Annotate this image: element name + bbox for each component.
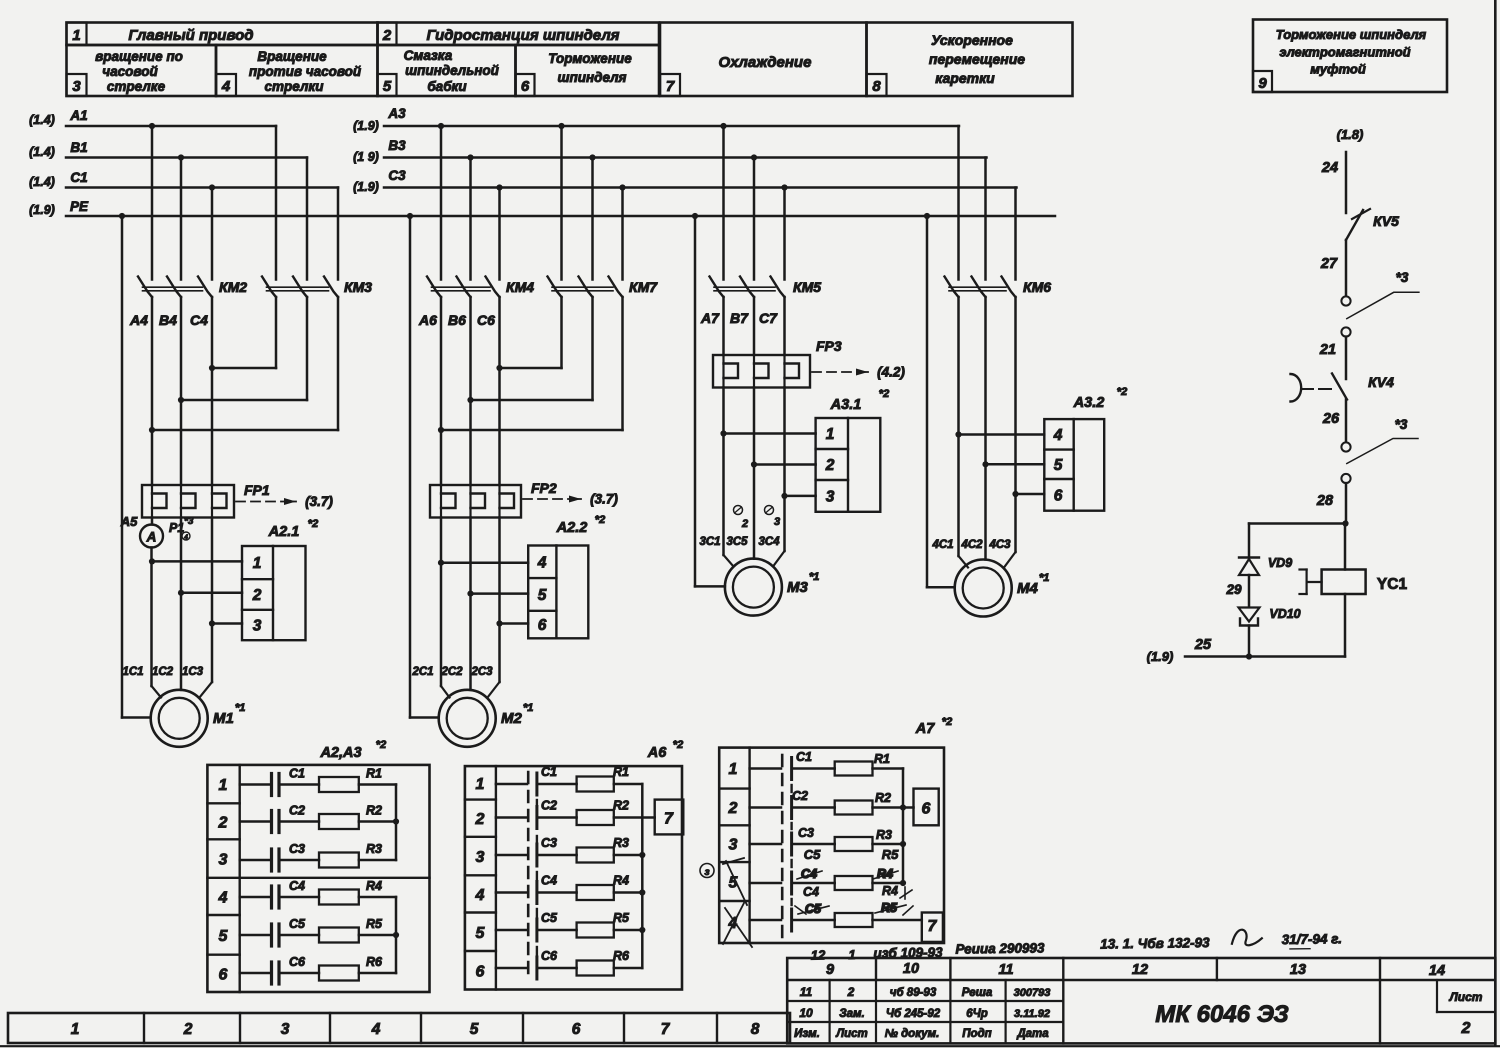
svg-text:C7: C7 — [759, 310, 778, 326]
connector mark *3 lower — [1347, 417, 1418, 464]
svg-text:(1.4): (1.4) — [29, 175, 55, 189]
wire C3 to KM6 — [1014, 188, 1017, 280]
resistor R3 of A6 — [538, 836, 642, 863]
header box 8 Ускоренное перемещение каретки — [867, 23, 1073, 97]
svg-text:С6: С6 — [289, 955, 306, 969]
svg-text:муфтой: муфтой — [1310, 62, 1366, 77]
svg-text:КМ5: КМ5 — [793, 279, 821, 295]
svg-text:(1.8): (1.8) — [1337, 127, 1364, 142]
wire A7 to A3.1 pin1 — [724, 432, 816, 435]
svg-text:3: 3 — [729, 837, 738, 854]
node junction C6 — [496, 365, 502, 371]
wire B3 to KM7 — [591, 158, 594, 280]
node B3 power rail — [353, 138, 986, 164]
capacitor row 3 of A7 — [750, 843, 781, 846]
svg-text:5: 5 — [383, 78, 392, 95]
wire B3 to KM6 — [984, 158, 987, 280]
svg-text:R1: R1 — [366, 767, 382, 781]
svg-text:8: 8 — [751, 1021, 760, 1038]
svg-text:Зам.: Зам. — [839, 1008, 865, 1020]
wire A1 to KM2 — [151, 126, 154, 280]
svg-text:R1: R1 — [613, 765, 629, 779]
svg-text:*2: *2 — [673, 739, 683, 751]
connector pin box 7 of A6 — [642, 800, 683, 835]
svg-text:2: 2 — [1461, 1020, 1471, 1037]
capacitor C3 of A6 — [496, 836, 557, 855]
title block frame — [787, 958, 1495, 1043]
svg-text:6: 6 — [219, 966, 228, 983]
diode VD9 — [1239, 556, 1292, 575]
svg-text:3С4: 3С4 — [758, 536, 780, 548]
resistor row 2 of A7 — [793, 801, 903, 815]
node A1 power rail — [29, 108, 276, 129]
svg-text:С1: С1 — [796, 750, 812, 764]
svg-text:4: 4 — [1053, 427, 1063, 444]
wire C1 to KM2 — [211, 188, 214, 280]
thermal overload relay FP1 — [142, 482, 333, 518]
svg-text:5: 5 — [538, 587, 547, 604]
capacitor C1 of A6 — [496, 765, 557, 784]
wire PE to M2 frame — [409, 216, 412, 718]
svg-text:1: 1 — [848, 947, 855, 962]
svg-text:(1.9): (1.9) — [29, 203, 55, 217]
capacitor C3 of A2,A3 — [240, 842, 305, 871]
svg-text:3: 3 — [72, 78, 81, 95]
wire 27 — [1345, 240, 1348, 297]
svg-text:A4: A4 — [129, 312, 148, 328]
motor M4 — [955, 560, 1050, 617]
header box 5 Смазка шпиндельной бабки — [378, 45, 516, 96]
wire B4 to A2.1 pin2 — [181, 592, 242, 595]
wire phase B7 vertical — [753, 297, 756, 355]
node C1 power rail — [29, 170, 338, 191]
svg-text:6: 6 — [922, 801, 931, 818]
svg-text:С5: С5 — [541, 911, 558, 925]
svg-text:*2: *2 — [1117, 386, 1127, 398]
svg-text:каретки: каретки — [935, 70, 995, 86]
wire to diode branch — [1249, 522, 1346, 525]
svg-text:26: 26 — [1322, 411, 1340, 427]
wire A2,A3 common bus 4-6 — [395, 897, 398, 973]
wire phase A6 vertical — [440, 297, 443, 485]
svg-text:4: 4 — [221, 78, 231, 95]
sheet cell Лист — [1437, 980, 1495, 1037]
svg-text:13: 13 — [1290, 962, 1306, 978]
wire PE to M4 frame — [926, 216, 929, 587]
wire A3 to KM4 — [440, 126, 443, 280]
svg-text:Вращение: Вращение — [257, 49, 327, 64]
contactor KM6 main contacts — [945, 277, 1052, 298]
connector pin box 7 of A7 — [922, 913, 943, 942]
wire KM7 output 1 to C6 — [560, 297, 563, 368]
wire 29 — [1248, 575, 1251, 607]
svg-text:1: 1 — [219, 777, 228, 794]
svg-text:A: A — [146, 530, 157, 545]
wire A6 to A2.2 pin4 — [441, 561, 528, 564]
svg-text:A6: A6 — [647, 745, 667, 761]
wire phase C4 vertical — [211, 297, 214, 485]
svg-text:R3: R3 — [366, 842, 382, 856]
svg-text:КМ7: КМ7 — [629, 279, 658, 295]
node junction A4 — [149, 427, 155, 433]
svg-text:A2.1: A2.1 — [268, 524, 300, 540]
wire 4C3 — [1014, 494, 1017, 552]
svg-text:*3: *3 — [1396, 270, 1409, 285]
svg-text:A2,A3: A2,A3 — [319, 745, 361, 761]
wire 24 — [1345, 152, 1348, 213]
node junction B4 — [178, 397, 184, 403]
node B1 power rail — [29, 140, 307, 161]
motor M1 — [151, 690, 246, 747]
svg-text:(3.7): (3.7) — [305, 494, 333, 509]
svg-text:3: 3 — [219, 852, 228, 869]
svg-text:R4: R4 — [613, 874, 629, 888]
header box 9 Торможение шпинделя электромагнитной муфтой — [1253, 20, 1447, 93]
wire KM3 output 3 to A4 — [337, 297, 340, 430]
wire A2,A3 common bus 1-3 — [395, 785, 398, 861]
svg-text:1С3: 1С3 — [182, 666, 204, 678]
svg-text:R2: R2 — [366, 804, 382, 818]
wire 2C3 — [498, 518, 501, 683]
svg-text:2: 2 — [218, 814, 228, 831]
svg-text:4: 4 — [475, 887, 485, 904]
resistor row 1 of A7 — [793, 762, 903, 776]
svg-text:Главный привод: Главный привод — [128, 27, 253, 44]
svg-text:FP3: FP3 — [816, 338, 842, 354]
svg-text:2С3: 2С3 — [470, 666, 493, 678]
svg-text:Реша: Реша — [962, 987, 993, 999]
svg-text:A7: A7 — [915, 721, 935, 737]
contactor KM3 main contacts — [262, 277, 372, 298]
capacitor C6 of A6 — [496, 949, 558, 968]
svg-text:5: 5 — [219, 928, 229, 945]
svg-text:A7: A7 — [700, 310, 720, 326]
connector A2.2 — [528, 514, 605, 638]
svg-text:(1.9): (1.9) — [353, 119, 379, 133]
ammeter P1 — [120, 514, 194, 548]
resistor row 5 of A7 — [793, 913, 922, 927]
capacitor C2 of A2,A3 — [240, 804, 305, 833]
svg-text:4: 4 — [183, 534, 188, 541]
resistor R2 of A6 — [538, 799, 642, 826]
svg-text:C4: C4 — [190, 312, 208, 328]
wire A1 to KM3 — [275, 126, 278, 280]
header box 2 Гидростанция шпинделя — [378, 23, 660, 46]
handwritten revision note — [811, 928, 1343, 962]
relay contact KV4 — [1291, 374, 1395, 402]
svg-text:*2: *2 — [879, 388, 889, 400]
svg-text:6: 6 — [476, 963, 485, 980]
svg-text:*1: *1 — [235, 702, 245, 714]
wire phase 4C3 vertical — [1014, 297, 1017, 494]
wire B3 to KM4 — [469, 158, 472, 280]
svg-text:Лист: Лист — [1449, 990, 1483, 1004]
resistor R6 of A6 — [538, 949, 642, 976]
svg-text:FP2: FP2 — [531, 480, 557, 496]
svg-text:1: 1 — [72, 27, 80, 44]
svg-text:14: 14 — [1429, 963, 1445, 979]
revision row 2 handwritten — [799, 1006, 1050, 1020]
wire A3 to KM7 — [560, 126, 563, 280]
connector pin 26 lower — [1341, 442, 1350, 451]
resistor R3 of A2,A3 — [279, 842, 396, 868]
svg-text:Гидростанция шпинделя: Гидростанция шпинделя — [426, 27, 619, 44]
svg-text:2С2: 2С2 — [440, 666, 463, 678]
contactor KM2 main contacts — [138, 277, 247, 298]
connector pin 27 upper — [1341, 296, 1350, 305]
svg-text:21: 21 — [1319, 342, 1336, 358]
contactor KM7 main contacts — [548, 277, 659, 298]
connector pin 21 upper — [1341, 327, 1350, 336]
sheet border bottom — [0, 1045, 1500, 1047]
revision mark 3 — [765, 506, 774, 515]
wire to A3.2 pin5 — [986, 463, 1045, 466]
wire phase C7 vertical — [783, 297, 786, 355]
svg-text:7: 7 — [664, 811, 674, 828]
svg-text:B3: B3 — [388, 138, 406, 153]
svg-text:3С1: 3С1 — [699, 536, 720, 548]
svg-text:6: 6 — [572, 1021, 581, 1038]
wire 2C1 — [440, 518, 443, 687]
wire C3 to KM5 — [783, 188, 786, 280]
svg-text:R3: R3 — [876, 828, 892, 842]
header box 7 Охлаждение — [660, 23, 867, 97]
capacitor row 2 of A7 — [750, 806, 781, 809]
resistor R1 of A2,A3 — [279, 767, 396, 793]
connector A2.1 — [242, 518, 318, 640]
capacitor C4 of A2,A3 — [240, 879, 305, 908]
svg-text:С3: С3 — [541, 836, 557, 850]
svg-text:часовой: часовой — [102, 64, 158, 79]
svg-text:A1: A1 — [69, 108, 87, 123]
svg-text:A3.1: A3.1 — [830, 397, 862, 413]
wire A7 common bus — [902, 769, 905, 884]
wire C3 to KM7 — [621, 188, 624, 280]
svg-text:С2: С2 — [541, 799, 557, 813]
wire 4C2 — [984, 464, 987, 559]
svg-text:8: 8 — [872, 78, 881, 95]
svg-text:13. 1. Чбв 132-93: 13. 1. Чбв 132-93 — [1100, 935, 1210, 952]
svg-text:6: 6 — [1054, 487, 1063, 504]
node junction 28 — [1342, 520, 1348, 526]
wire B1 to KM2 — [180, 158, 183, 280]
wire KM3 output 1 to C4 — [275, 297, 278, 368]
wire KM3 output 2 to B4 — [306, 297, 309, 400]
svg-text:2С1: 2С1 — [411, 666, 433, 678]
wire phase B4 vertical — [180, 297, 183, 485]
svg-text:B6: B6 — [448, 312, 466, 328]
svg-text:2: 2 — [847, 985, 855, 999]
wire 3C2 — [753, 465, 756, 559]
capacitor row 4 of A7 — [750, 882, 781, 885]
capacitor C6 of A2,A3 — [240, 955, 306, 984]
revision row 1 handwritten — [800, 985, 1051, 999]
svg-text:6: 6 — [521, 78, 530, 95]
svg-text:1С1: 1С1 — [122, 666, 143, 678]
node junction C4 — [209, 365, 215, 371]
svg-text:VD9: VD9 — [1268, 556, 1292, 570]
svg-text:С5: С5 — [289, 917, 306, 931]
wire A3 to KM5 — [722, 126, 725, 280]
wire phase 4C1 vertical — [957, 297, 960, 435]
capacitor row 5 of A7 — [750, 919, 781, 922]
svg-text:*1: *1 — [809, 571, 819, 583]
svg-text:4: 4 — [371, 1021, 381, 1038]
capacitor row 1 of A7 — [750, 767, 781, 770]
revision mark 3 circled — [700, 864, 714, 878]
svg-text:М2: М2 — [501, 710, 522, 727]
relay contact KV5 — [1346, 209, 1399, 240]
svg-text:R4: R4 — [366, 879, 382, 893]
svg-text:R6: R6 — [366, 955, 383, 969]
svg-text:КV4: КV4 — [1368, 374, 1394, 390]
svg-text:24: 24 — [1321, 160, 1338, 176]
wire PE to M3 frame — [694, 216, 697, 586]
strikeout scribbles on A7 pins — [726, 861, 747, 905]
svg-text:КV5: КV5 — [1373, 213, 1399, 229]
svg-text:7: 7 — [661, 1021, 671, 1038]
svg-text:31/7-94 г.: 31/7-94 г. — [1282, 931, 1343, 947]
wire KM7 output 3 to A6 — [621, 297, 624, 430]
svg-text:1: 1 — [729, 761, 738, 778]
svg-text:шпинделя: шпинделя — [557, 70, 626, 85]
svg-text:С3: С3 — [289, 842, 305, 856]
suppressor block A7 — [719, 716, 952, 943]
connector pin 28 upper — [1341, 474, 1350, 483]
svg-text:28: 28 — [1316, 493, 1334, 509]
resistor R4 of A2,A3 — [279, 879, 396, 905]
svg-text:B7: B7 — [730, 310, 749, 326]
header box 1 Главный привод — [67, 23, 378, 46]
svg-text:R5: R5 — [882, 847, 899, 862]
wire 1C3 — [211, 518, 214, 683]
svg-text:10: 10 — [799, 1006, 813, 1020]
wire VD10 to node 25 — [1248, 626, 1251, 657]
title block column captions — [794, 1028, 1049, 1040]
svg-text:КМ2: КМ2 — [219, 279, 247, 295]
sheet border right — [1494, 0, 1497, 1045]
resistor row 4 of A7 — [793, 876, 903, 890]
svg-text:Ускоренное: Ускоренное — [931, 32, 1013, 48]
svg-text:3: 3 — [774, 516, 780, 528]
svg-text:*1: *1 — [523, 702, 533, 714]
svg-text:*2: *2 — [595, 514, 605, 526]
wire KM7 output 2 to B6 — [591, 297, 594, 400]
svg-text:3: 3 — [281, 1021, 290, 1038]
wire phase B6 vertical — [469, 297, 472, 485]
svg-text:12: 12 — [811, 947, 826, 962]
svg-text:Подп: Подп — [962, 1028, 991, 1040]
capacitor C2 of A6 — [496, 799, 557, 818]
svg-text:7: 7 — [928, 918, 938, 935]
svg-text:С4: С4 — [803, 885, 819, 899]
svg-text:Смазка: Смазка — [404, 48, 453, 63]
header box 6 Торможение шпинделя — [516, 45, 660, 96]
svg-text:С6: С6 — [541, 949, 558, 963]
svg-text:(1 9): (1 9) — [353, 150, 379, 164]
svg-text:29: 29 — [1225, 582, 1242, 597]
capacitor common plate dashed lines A7 — [781, 755, 784, 940]
svg-text:R4: R4 — [882, 884, 898, 898]
wire C7 to A3.1 pin3 — [785, 495, 816, 498]
svg-text:A2.2: A2.2 — [556, 520, 588, 536]
svg-text:R5: R5 — [366, 917, 383, 931]
svg-text:2: 2 — [728, 800, 738, 817]
svg-text:*2: *2 — [308, 518, 318, 530]
header box 3 вращение по часовой стрелке — [67, 45, 217, 96]
svg-text:2: 2 — [183, 1021, 193, 1038]
svg-text:R3: R3 — [613, 836, 629, 850]
svg-text:(1.9): (1.9) — [353, 180, 379, 194]
wire 1C2 — [180, 518, 183, 690]
svg-text:КМ6: КМ6 — [1023, 279, 1051, 295]
svg-text:A3.2: A3.2 — [1073, 395, 1105, 411]
svg-text:стрелке: стрелке — [107, 79, 166, 94]
thermal overload relay FP2 — [430, 480, 618, 518]
contactor KM4 main contacts — [427, 277, 534, 298]
svg-text:стрелки: стрелки — [265, 79, 325, 94]
svg-text:6: 6 — [538, 617, 547, 634]
svg-text:2: 2 — [825, 457, 835, 474]
svg-text:1: 1 — [71, 1021, 80, 1038]
svg-text:300793: 300793 — [1014, 987, 1051, 999]
wire phase 4C2 vertical — [984, 297, 987, 464]
svg-text:бабки: бабки — [427, 79, 467, 94]
node A3 power rail — [353, 106, 959, 133]
svg-text:C3: C3 — [388, 168, 406, 183]
resistor R4 of A6 — [538, 874, 642, 901]
resistor R2 of A2,A3 — [279, 804, 396, 830]
svg-text:С1: С1 — [289, 767, 305, 781]
bottom zone strip — [8, 1013, 790, 1043]
node PE rail — [29, 199, 1055, 219]
svg-text:1С2: 1С2 — [152, 666, 174, 678]
svg-text:R2: R2 — [613, 799, 629, 813]
svg-text:перемещение: перемещение — [929, 51, 1025, 67]
wire phase A7 vertical — [722, 297, 725, 355]
svg-text:МК 6046 ЭЗ: МК 6046 ЭЗ — [1155, 1001, 1289, 1028]
electromagnetic clutch YC1 — [1300, 524, 1408, 657]
wire to A3.2 pin6 — [1016, 493, 1045, 496]
header box 4 Вращение против часовой стрелки — [216, 45, 378, 96]
node junction B6 — [467, 397, 473, 403]
capacitor C5 of A6 — [496, 911, 558, 930]
svg-text:R1: R1 — [874, 752, 890, 766]
thermal overload relay FP3 — [713, 338, 905, 388]
svg-text:B4: B4 — [159, 312, 177, 328]
svg-text:2: 2 — [741, 518, 748, 530]
svg-text:против часовой: против часовой — [249, 64, 362, 79]
wire phase A4 vertical — [151, 297, 154, 485]
capacitor common plate dashed lines A6 — [527, 772, 530, 980]
svg-text:2: 2 — [252, 587, 262, 604]
svg-text:6Чp: 6Чp — [966, 1008, 988, 1020]
svg-text:FP1: FP1 — [244, 482, 270, 498]
svg-text:7: 7 — [666, 78, 675, 95]
svg-text:R6: R6 — [613, 949, 630, 963]
svg-text:КМ3: КМ3 — [344, 279, 372, 295]
svg-text:Дата: Дата — [1016, 1028, 1049, 1040]
connector mark *3 upper — [1347, 270, 1419, 319]
svg-text:М4: М4 — [1017, 580, 1038, 597]
node junction A6 — [438, 427, 444, 433]
svg-text:3: 3 — [253, 618, 262, 635]
svg-text:YС1: YС1 — [1377, 576, 1408, 593]
svg-text:Реииа 290993: Реииа 290993 — [955, 940, 1045, 956]
svg-text:С5: С5 — [804, 847, 821, 862]
svg-text:4: 4 — [218, 889, 228, 906]
svg-text:R2: R2 — [875, 791, 891, 805]
